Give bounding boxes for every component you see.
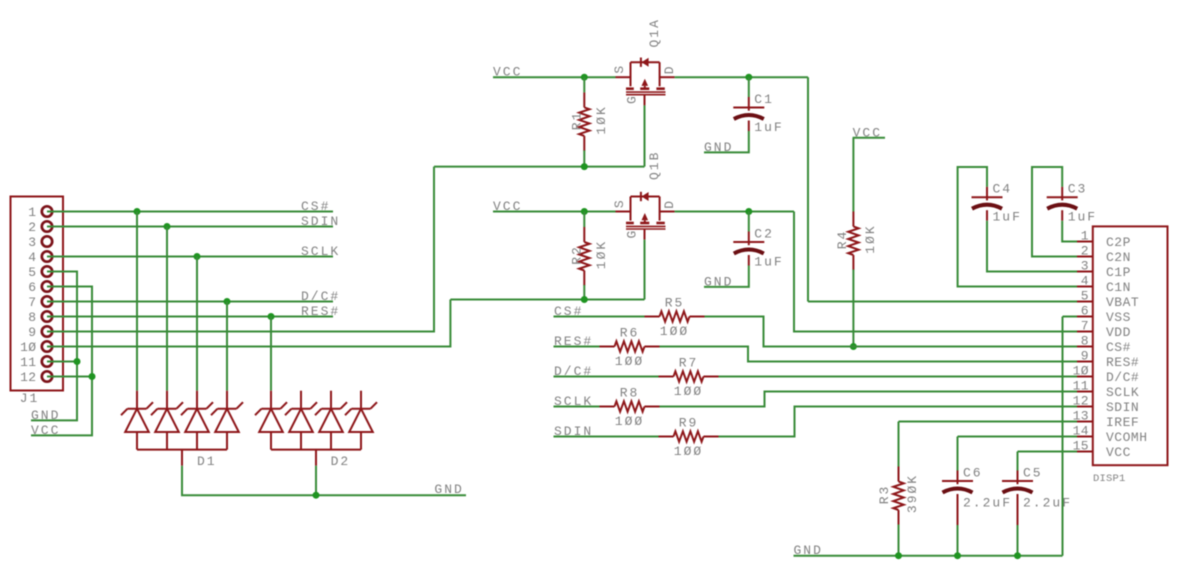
pin 10 circle J1 <box>42 341 52 351</box>
svg-text:SDIN: SDIN <box>1106 400 1139 415</box>
svg-text:9: 9 <box>28 325 36 340</box>
resistor R9 <box>659 431 719 441</box>
svg-text:1ØØ: 1ØØ <box>674 384 703 399</box>
svg-text:1ØK: 1ØK <box>863 224 878 253</box>
resistor R2 <box>579 227 589 286</box>
junction D2/GND rail <box>313 492 320 499</box>
svg-text:2: 2 <box>28 220 36 235</box>
svg-text:R5: R5 <box>665 296 685 311</box>
svg-text:IREF: IREF <box>1106 415 1139 430</box>
svg-text:12: 12 <box>1073 394 1089 409</box>
svg-text:SCLK: SCLK <box>301 244 340 259</box>
wire IREF row <box>899 421 1078 423</box>
svg-text:4: 4 <box>28 250 36 265</box>
svg-text:1uF: 1uF <box>993 210 1022 225</box>
svg-text:4: 4 <box>1081 274 1089 289</box>
wire D1 stub red <box>181 450 183 466</box>
wire VCC label stub R4 <box>853 137 885 139</box>
svg-text:GND: GND <box>704 274 733 289</box>
wire VCC to Q1A source <box>493 76 616 78</box>
wire R4 bottom green <box>852 270 854 347</box>
svg-text:C5: C5 <box>1023 466 1043 481</box>
diode D2 element 2 <box>285 391 317 450</box>
svg-text:D2: D2 <box>331 454 351 469</box>
display module DISP1 body <box>1093 226 1168 465</box>
wire J1 pin1 to CS# label <box>47 211 333 213</box>
svg-text:R3: R3 <box>877 485 892 505</box>
junction VCC/R1 top <box>581 74 588 81</box>
wire C3 bottom to C2P row <box>1062 221 1077 242</box>
resistor R3 <box>893 467 903 526</box>
svg-text:1uF: 1uF <box>754 255 783 270</box>
svg-text:R8: R8 <box>620 386 640 401</box>
svg-text:S: S <box>612 198 627 208</box>
wire VSS down to GND rail <box>1062 317 1064 556</box>
resistor R4 <box>848 212 858 271</box>
svg-text:2.2uF: 2.2uF <box>963 496 1012 511</box>
wire C2 bottom to GND <box>704 266 749 287</box>
wire J1 pin9 up to Q1A gate row <box>47 167 434 332</box>
svg-text:GND: GND <box>704 140 733 155</box>
capacitor C5 <box>1002 471 1033 493</box>
wire D/C# label to R7 <box>554 376 659 378</box>
wire C1 top green <box>748 77 750 97</box>
pin stub 14 DISP1 <box>1077 436 1093 438</box>
svg-text:1ØØ: 1ØØ <box>615 414 644 429</box>
wire R9 to DISP1 SDIN <box>719 407 1078 437</box>
svg-text:DISP1: DISP1 <box>1093 473 1126 485</box>
svg-text:1ØØ: 1ØØ <box>615 354 644 369</box>
svg-text:G: G <box>624 94 639 104</box>
wire J1 pin6 to VCC <box>31 287 92 436</box>
junction R3/GND <box>895 552 902 559</box>
wire J1 pin11 to GND net <box>47 361 77 363</box>
wire R5 to DISP1 CS# <box>705 317 1078 347</box>
svg-text:C1: C1 <box>754 92 774 107</box>
svg-text:G: G <box>624 229 639 239</box>
wire C5 bottom green <box>1017 525 1019 556</box>
svg-text:9: 9 <box>1081 349 1089 364</box>
diode D1 element 4 <box>211 391 243 450</box>
wire J1 pin8 to RES# label <box>47 316 333 318</box>
wire Q1A out down to VBAT <box>807 77 809 301</box>
junction pin2/D1b <box>164 223 171 230</box>
svg-text:8: 8 <box>1081 334 1089 349</box>
wire pin4 down to D1 diode3 <box>196 257 198 391</box>
wire J1 pin5 to GND <box>31 272 77 421</box>
svg-text:1uF: 1uF <box>1068 210 1097 225</box>
pin stub 1 DISP1 <box>1077 241 1093 243</box>
svg-text:1Ø: 1Ø <box>1073 364 1089 379</box>
pin stub 12 DISP1 <box>1077 406 1093 408</box>
svg-text:3: 3 <box>1081 259 1089 274</box>
svg-text:R7: R7 <box>679 356 699 371</box>
pin 6 circle J1 <box>42 281 52 291</box>
wire VCOMH row <box>958 436 1078 438</box>
pin stub 9 DISP1 <box>1077 361 1093 363</box>
capacitor C6 <box>942 471 973 493</box>
pin 12 circle J1 <box>42 371 52 381</box>
wire R3 top green <box>898 422 900 467</box>
transistor Q1A (p-mosfet) <box>616 57 675 105</box>
capacitor C2 <box>733 232 764 254</box>
wire C4 bottom to C1P row <box>987 221 1077 272</box>
junction pin12/VCC <box>89 373 96 380</box>
pin stub 5 DISP1 <box>1077 301 1093 303</box>
svg-text:C2: C2 <box>754 227 774 242</box>
svg-text:D/C#: D/C# <box>301 289 340 304</box>
svg-text:RES#: RES# <box>301 304 340 319</box>
diode D1 element 2 <box>151 391 183 450</box>
wire Q1B out to VDD row <box>794 212 1077 332</box>
resistor R6 <box>600 341 660 351</box>
svg-text:SDIN: SDIN <box>301 214 340 229</box>
junction pin1/D1a <box>134 208 141 215</box>
wire R1 top green <box>583 77 585 92</box>
svg-text:VDD: VDD <box>1106 325 1131 340</box>
wire C1 bottom to GND <box>704 131 749 152</box>
diode D2 element 3 <box>315 391 347 450</box>
svg-text:5: 5 <box>1081 289 1089 304</box>
svg-text:8: 8 <box>28 310 36 325</box>
svg-text:12: 12 <box>20 370 36 385</box>
pin 4 circle J1 <box>42 251 52 261</box>
wire C5 top green <box>1017 452 1019 471</box>
pin stub 2 DISP1 <box>1077 256 1093 258</box>
diode D1 element 1 <box>121 391 153 450</box>
capacitor C4 <box>972 187 1003 209</box>
pin 5 circle J1 <box>42 266 52 276</box>
junction pin7/D1d <box>224 298 231 305</box>
junction Q1A out/C1 <box>745 74 752 81</box>
svg-text:C6: C6 <box>963 466 983 481</box>
junction R2 bottom/gate row <box>581 296 588 303</box>
wire Q1A gate row <box>434 166 645 168</box>
transistor Q1B (p-mosfet) <box>616 192 675 240</box>
pin stub 6 DISP1 <box>1077 316 1093 318</box>
wire J1 pin12 to VCC net <box>47 376 92 378</box>
capacitor C1 <box>733 97 764 119</box>
svg-text:C1P: C1P <box>1106 265 1131 280</box>
wire VCC to Q1B source <box>493 211 616 213</box>
svg-text:S: S <box>612 64 627 74</box>
pin stub 7 DISP1 <box>1077 331 1093 333</box>
svg-text:Q1A: Q1A <box>647 18 662 47</box>
svg-text:C2N: C2N <box>1106 250 1131 265</box>
svg-text:D1: D1 <box>197 454 217 469</box>
svg-text:J1: J1 <box>20 391 40 406</box>
pin stub 3 DISP1 <box>1077 271 1093 273</box>
diode D2 element 4 <box>345 391 377 450</box>
svg-text:VCOMH: VCOMH <box>1106 430 1148 445</box>
wire D2 bottom bus <box>271 449 361 451</box>
svg-text:1ØK: 1ØK <box>594 105 609 134</box>
wire SCLK label to R8 <box>554 406 600 408</box>
wire pin2 down to D1 diode2 <box>166 227 168 391</box>
wire J1 pin10 up to Q1B gate row <box>47 300 450 347</box>
svg-text:1ØK: 1ØK <box>594 240 609 269</box>
resistor R5 <box>645 311 705 321</box>
svg-text:1ØØ: 1ØØ <box>674 444 703 459</box>
svg-text:VSS: VSS <box>1106 310 1131 325</box>
wire CS# label to R5 <box>554 316 645 318</box>
wire VSS row stub <box>1063 316 1078 318</box>
wire C6 top green <box>957 437 959 471</box>
svg-text:R2: R2 <box>570 245 585 265</box>
wire Q1B gate row <box>450 299 644 301</box>
svg-text:SCLK: SCLK <box>1106 385 1139 400</box>
svg-text:R1: R1 <box>570 111 585 131</box>
svg-text:C3: C3 <box>1068 182 1088 197</box>
svg-text:R6: R6 <box>620 326 640 341</box>
pin stub 8 DISP1 <box>1077 346 1093 348</box>
svg-text:3: 3 <box>28 235 36 250</box>
svg-text:1uF: 1uF <box>754 120 783 135</box>
svg-text:C4: C4 <box>993 182 1013 197</box>
junction R1 bottom/gate row <box>581 163 588 170</box>
svg-text:CS#: CS# <box>1106 340 1131 355</box>
svg-text:1ØØ: 1ØØ <box>660 324 689 339</box>
wire Q1A gate down green <box>644 105 646 166</box>
svg-text:D: D <box>662 64 677 74</box>
wire pin1 down to D1 diode1 <box>136 212 138 391</box>
wire R2 top green <box>583 212 585 228</box>
pin stub 15 DISP1 <box>1077 451 1093 453</box>
pin stub 13 DISP1 <box>1077 421 1093 423</box>
wire R7 to DISP1 D/C# <box>719 376 1078 378</box>
svg-text:R4: R4 <box>835 230 850 250</box>
resistor R1 <box>579 92 589 150</box>
svg-text:D/C#: D/C# <box>1106 370 1139 385</box>
junction pin11/GND <box>74 358 81 365</box>
diode D1 element 3 <box>181 391 213 450</box>
svg-text:5: 5 <box>28 265 36 280</box>
wire bottom GND rail <box>794 555 1063 557</box>
junction C5/GND <box>1014 552 1021 559</box>
wire D1 stub to GND rail <box>182 466 466 496</box>
svg-text:GND: GND <box>434 482 463 497</box>
wire R6 to DISP1 RES# <box>660 347 1078 362</box>
wire Q1A drain out <box>675 76 808 78</box>
pin stub 11 DISP1 <box>1077 391 1093 393</box>
pin 8 circle J1 <box>42 311 52 321</box>
svg-text:7: 7 <box>28 295 36 310</box>
svg-text:7: 7 <box>1081 319 1089 334</box>
junction pin8/D2a <box>268 313 275 320</box>
pin 9 circle J1 <box>42 326 52 336</box>
svg-text:R9: R9 <box>679 416 699 431</box>
svg-text:1: 1 <box>28 205 36 220</box>
pin stub 10 DISP1 <box>1077 376 1093 378</box>
connector J1 body <box>11 197 64 391</box>
wire SDIN label to R9 <box>554 436 659 438</box>
pin 7 circle J1 <box>42 296 52 306</box>
capacitor C3 <box>1047 187 1078 209</box>
junction pin4/D1c <box>194 253 201 260</box>
wire VCC row <box>1018 451 1078 453</box>
resistor R7 <box>659 371 719 381</box>
wire C2 top green <box>748 212 750 232</box>
svg-text:39ØK: 39ØK <box>905 474 920 513</box>
junction R4/CS# row <box>850 343 857 350</box>
pin 11 circle J1 <box>42 356 52 366</box>
svg-text:2.2uF: 2.2uF <box>1023 496 1072 511</box>
svg-text:11: 11 <box>1073 379 1089 394</box>
junction VCC/R2 top <box>581 208 588 215</box>
svg-text:VCC: VCC <box>1106 445 1131 460</box>
wire R2 bottom green <box>583 285 585 300</box>
svg-text:2: 2 <box>1081 244 1089 259</box>
wire RES# label to R6 <box>554 346 600 348</box>
wire C6 bottom green <box>957 525 959 556</box>
pin stub 4 DISP1 <box>1077 286 1093 288</box>
wire D2 stub red <box>315 450 317 466</box>
wire D2 stub to GND rail <box>315 466 317 496</box>
svg-text:1: 1 <box>1081 229 1089 244</box>
pin 1 circle J1 <box>42 206 52 216</box>
svg-text:RES#: RES# <box>1106 355 1139 370</box>
wire J1 pin4 to SCLK label <box>47 256 333 258</box>
svg-text:VBAT: VBAT <box>1106 295 1139 310</box>
wire R1 bottom green <box>583 150 585 166</box>
svg-text:C1N: C1N <box>1106 280 1131 295</box>
wire R4 top green <box>852 138 854 212</box>
svg-text:6: 6 <box>28 280 36 295</box>
pin 2 circle J1 <box>42 221 52 231</box>
wire pin7 down to D1 diode4 <box>226 302 228 391</box>
wire R8 to DISP1 SCLK <box>660 392 1078 407</box>
svg-text:6: 6 <box>1081 304 1089 319</box>
diode D2 element 1 <box>255 391 287 450</box>
svg-text:1Ø: 1Ø <box>20 340 36 355</box>
junction Q1B out/C2 <box>745 208 752 215</box>
wire D1 bottom bus <box>137 449 227 451</box>
wire C4 top to C1N row <box>958 167 1077 287</box>
wire R3 bottom green <box>898 525 900 556</box>
junction C6/GND <box>954 552 961 559</box>
svg-text:11: 11 <box>20 355 36 370</box>
pin 3 circle J1 <box>42 236 52 246</box>
resistor R8 <box>600 401 660 411</box>
wire Q1B drain out <box>675 211 794 213</box>
wire J1 pin2 to SDIN label <box>47 226 333 228</box>
svg-text:C2P: C2P <box>1106 235 1131 250</box>
svg-text:D: D <box>662 199 677 209</box>
wire pin8 down to D2 diode1 <box>270 317 272 391</box>
wire C3 top to C2N row <box>1032 167 1077 257</box>
svg-text:Q1B: Q1B <box>647 151 662 180</box>
wire VBAT row <box>808 301 1077 303</box>
svg-text:CS#: CS# <box>301 199 330 214</box>
wire Q1B gate down green <box>644 240 646 300</box>
wire J1 pin7 to D/C# label <box>47 301 333 303</box>
